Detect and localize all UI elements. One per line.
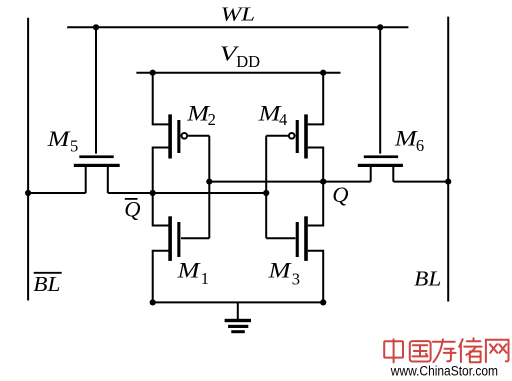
svg-text:5: 5 [70,137,78,156]
transistor M6 (access NMOS, gate bar) [364,155,398,158]
ground symbol bar 2 [228,325,248,328]
wire M5 gate lead from WL [95,27,97,153]
svg-text:4: 4 [279,110,287,129]
wire M6 right leg to BL [393,181,448,183]
svg-text:M: M [47,126,71,151]
wire M2 gate lead [188,135,209,137]
wire M4/M3 gate vertical [265,136,267,239]
wire M2/M1 gate vertical [208,136,210,239]
svg-text:BL: BL [414,267,441,291]
svg-text:WL: WL [221,4,256,26]
wire M6 gate lead from WL [379,27,381,153]
transistor M5 (access NMOS, gate bar) [79,155,113,158]
svg-text:6: 6 [416,136,424,155]
wire WL rail [67,26,408,28]
wire ground tap [237,302,239,319]
junction dot node Q / gate vertical [206,179,212,185]
watermark chinese text 中国存储网 [384,338,508,362]
wire node Q horizontal [209,181,370,183]
junction dot node Qbar / M1 drain [150,190,156,196]
wire M3 source to ground rail [308,251,324,303]
wire M4 gate lead [266,135,288,137]
junction dot VDD/M2 [150,70,156,76]
watermark char guo [410,341,431,361]
ground symbol bar 1 [225,319,251,322]
wire M5 right leg [107,165,109,193]
wire BLbar bit line (left vertical) [27,18,29,301]
svg-text:1: 1 [201,269,209,288]
wire VDD rail [136,72,340,74]
wire ground rail [153,301,324,303]
watermark char wang [486,340,509,362]
wire M5 left leg to BLbar [28,192,86,194]
transistor M4 gate bar [296,120,299,153]
junction dot BL / M6 [445,179,451,185]
wire BL bit line (right vertical) [447,17,449,302]
wire M5 left leg [85,165,87,193]
svg-text:BL: BL [33,272,60,296]
svg-text:www.ChinaStor.com: www.ChinaStor.com [390,363,498,378]
transistor M5 channel bar [74,164,120,167]
wire node Qbar horizontal [108,192,266,194]
svg-text:DD: DD [236,52,260,71]
transistor M2 PMOS bubble [181,133,187,139]
watermark char chu [459,338,481,362]
wire M2 drain to M1 drain (node Qbar column) [153,148,169,226]
svg-text:2: 2 [208,110,216,129]
ground symbol bar 3 [231,330,245,333]
wire VDD to M4 source [308,73,324,125]
transistor M3 gate bar [296,222,299,257]
junction dot WL/M6 [377,24,383,30]
svg-text:Q: Q [124,196,140,221]
transistor M2 (PMOS) channel bar [168,114,172,158]
transistor M1 gate bar [177,222,180,257]
watermark char zhong [384,339,403,362]
wire M4 drain to M3 drain (node Q column) [308,148,324,226]
wire VDD to M2 source [153,73,169,125]
wire M6 right leg [392,165,394,182]
svg-text:3: 3 [292,269,300,288]
transistor M2 gate bar [177,120,180,153]
svg-text:M: M [267,258,291,283]
junction dot BLbar / M5 [25,190,31,196]
watermark char cun [433,339,456,362]
transistor M4 PMOS bubble [289,133,295,139]
transistor M3 (NMOS) channel bar [304,216,308,261]
transistor M4 (PMOS) channel bar [304,114,308,158]
svg-text:M: M [394,126,418,151]
wire M6 left leg [370,165,372,182]
junction dot WL/M5 [93,24,99,30]
junction dot node Q / M3 drain [320,179,326,185]
svg-text:M: M [177,258,201,283]
wire M3 gate lead [266,237,295,239]
junction dot node Qbar / gate vertical [263,190,269,196]
wire M1 source to ground rail [153,251,169,303]
wire M1 gate lead [181,237,209,239]
transistor M6 channel bar [358,164,403,167]
junction dot ground rail left [150,299,156,305]
junction dot ground rail right [320,299,326,305]
transistor M1 (NMOS) channel bar [168,216,172,261]
svg-text:Q: Q [332,182,348,207]
junction dot VDD/M4 [320,70,326,76]
